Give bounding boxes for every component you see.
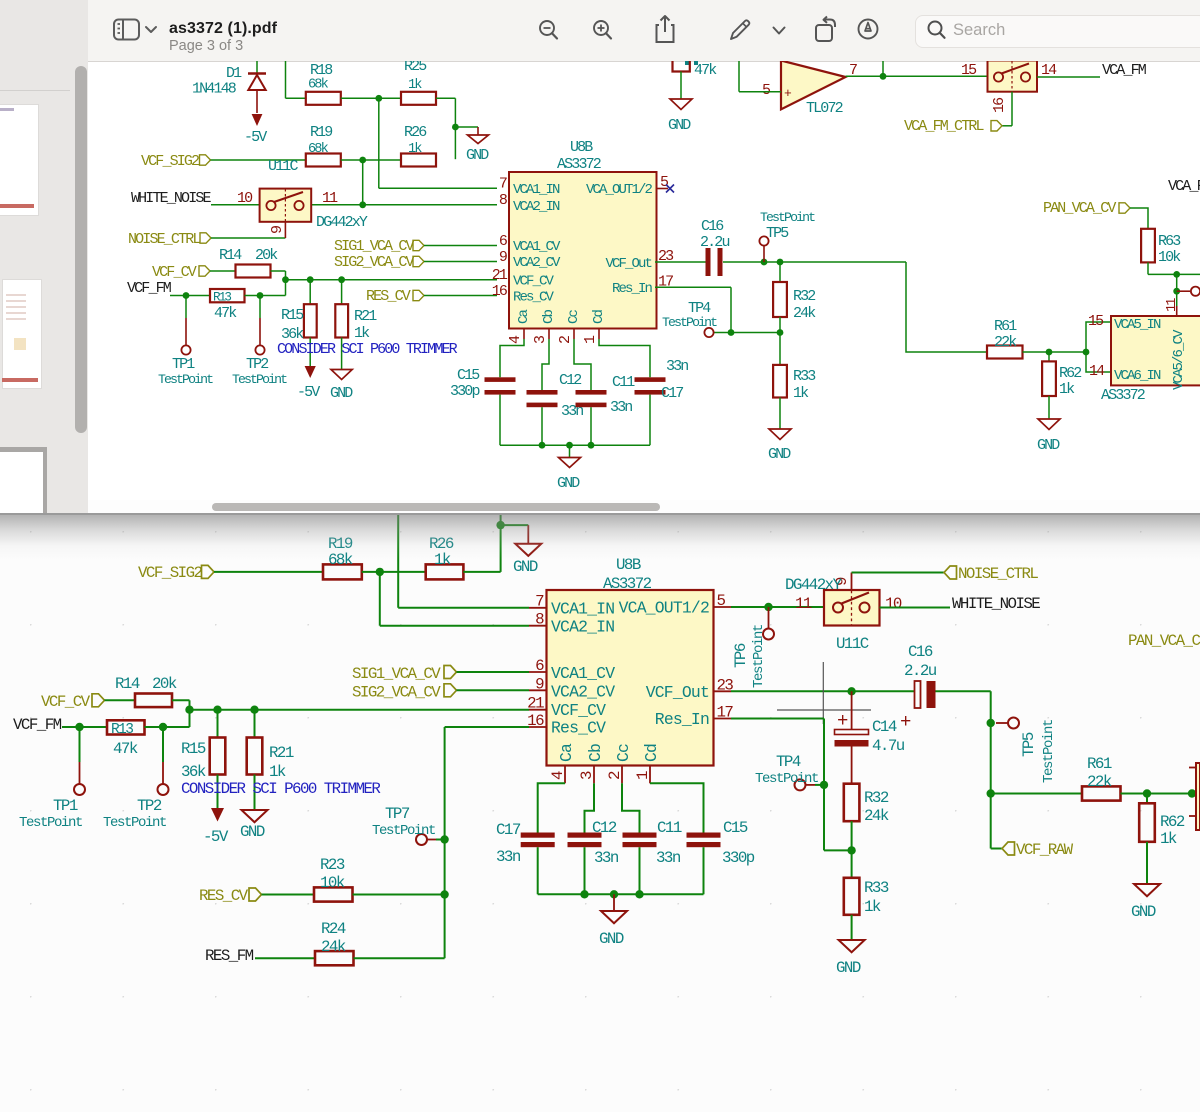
svg-text:Cd: Cd bbox=[642, 744, 661, 762]
svg-text:1k: 1k bbox=[1059, 381, 1075, 398]
wire trunk junction to pin7 bbox=[379, 98, 497, 188]
sidebar scrollbar bbox=[75, 66, 87, 433]
bottom rail wire bbox=[500, 444, 650, 446]
svg-text:11: 11 bbox=[795, 595, 812, 613]
analog switch (VCA_FM) bbox=[961, 61, 1057, 114]
ground GND (below 47k) bbox=[668, 99, 692, 134]
svg-text:33n: 33n bbox=[656, 849, 681, 867]
svg-text:4: 4 bbox=[507, 335, 524, 344]
junction (R62 tap) bbox=[1143, 789, 1151, 797]
resistor R32 bbox=[773, 262, 816, 333]
toolbar bbox=[88, 0, 1200, 62]
svg-text:21: 21 bbox=[527, 695, 544, 713]
junction (TP4) bbox=[820, 781, 828, 789]
wires to VCA5/6 pins bbox=[1086, 322, 1111, 372]
resistor R33 bbox=[844, 850, 889, 940]
svg-text:8: 8 bbox=[535, 611, 544, 629]
ground GND (below R21) bbox=[330, 370, 353, 403]
svg-text:TP4: TP4 bbox=[776, 753, 801, 771]
capacitor C17 bbox=[496, 821, 555, 894]
svg-text:Cc: Cc bbox=[614, 744, 633, 762]
junction bbox=[610, 890, 618, 898]
svg-text:VCF_FM: VCF_FM bbox=[13, 716, 62, 734]
svg-text:24k: 24k bbox=[321, 938, 346, 956]
svg-text:C12: C12 bbox=[592, 819, 617, 837]
svg-text:VCF_CV: VCF_CV bbox=[551, 701, 606, 720]
svg-text:AS3372: AS3372 bbox=[603, 575, 652, 593]
svg-text:D1: D1 bbox=[226, 65, 242, 82]
resistor R15 bbox=[181, 710, 225, 808]
svg-text:8: 8 bbox=[499, 192, 508, 209]
net label RES_FM bbox=[205, 947, 315, 965]
hier label VCF_CV bbox=[41, 693, 135, 711]
capacitor C15 bbox=[450, 367, 516, 445]
resistor R24 bbox=[315, 920, 445, 965]
svg-text:9: 9 bbox=[269, 226, 286, 234]
svg-text:PAN_VCA_CV: PAN_VCA_CV bbox=[1043, 200, 1116, 217]
svg-text:1k: 1k bbox=[408, 142, 422, 157]
ground GND (below R21) bbox=[240, 810, 268, 841]
svg-text:R63: R63 bbox=[1158, 233, 1181, 250]
svg-text:TP1: TP1 bbox=[172, 356, 195, 373]
svg-text:VCF_Out: VCF_Out bbox=[646, 683, 709, 702]
cut text dots bbox=[685, 61, 698, 65]
svg-text:3: 3 bbox=[532, 335, 549, 344]
capacitor C12 bbox=[527, 372, 584, 445]
svg-text:68k: 68k bbox=[308, 142, 329, 157]
resistor R33 bbox=[773, 333, 816, 430]
wire R26 to GND corner bbox=[463, 513, 528, 572]
svg-text:VCF_Out: VCF_Out bbox=[605, 256, 651, 272]
svg-text:33n: 33n bbox=[594, 849, 619, 867]
svg-text:R19: R19 bbox=[310, 124, 332, 141]
svg-text:VCF_FM: VCF_FM bbox=[127, 280, 172, 297]
capacitor C14 (electrolytic) bbox=[835, 691, 905, 783]
svg-text:GND: GND bbox=[1131, 903, 1156, 921]
junction bbox=[376, 568, 384, 576]
wire R25 to GND corner bbox=[436, 98, 478, 159]
svg-text:10: 10 bbox=[885, 595, 902, 613]
resistor R32 bbox=[844, 784, 889, 851]
svg-text:Cb: Cb bbox=[586, 744, 605, 762]
test point TP1 bbox=[158, 296, 213, 388]
svg-text:Ca: Ca bbox=[557, 743, 576, 762]
resistor R14 bbox=[115, 675, 177, 707]
PDF page area (white) bbox=[88, 62, 1200, 500]
svg-text:C17: C17 bbox=[496, 821, 521, 839]
svg-text:TP5: TP5 bbox=[1020, 732, 1038, 757]
svg-text:24k: 24k bbox=[793, 305, 816, 322]
svg-text:R61: R61 bbox=[994, 318, 1017, 335]
svg-text:C15: C15 bbox=[457, 367, 480, 384]
resistor 47k (cut by toolbar) bbox=[673, 61, 718, 99]
svg-text:R23: R23 bbox=[320, 856, 345, 874]
wire trunk to pin 7 bbox=[398, 513, 529, 608]
svg-text:VCA_FM_CTRL: VCA_FM_CTRL bbox=[904, 118, 985, 135]
IC (right edge, cut) bbox=[1189, 763, 1200, 830]
svg-text:47k: 47k bbox=[694, 62, 717, 79]
bottom rail wire bbox=[538, 893, 704, 895]
toolbar: title bbox=[169, 20, 277, 38]
svg-text:U8B: U8B bbox=[570, 139, 593, 156]
junction bbox=[728, 329, 735, 336]
hier label PAN_VCA_CV bbox=[1043, 200, 1148, 229]
junction (TP6) bbox=[764, 603, 772, 611]
resistor R21 bbox=[335, 280, 377, 370]
junction (R21 tap) bbox=[250, 706, 258, 714]
svg-text:Cb: Cb bbox=[541, 309, 557, 324]
svg-text:1N4148: 1N4148 bbox=[192, 81, 237, 98]
svg-text:VCF_SIG2: VCF_SIG2 bbox=[141, 153, 199, 170]
svg-text:Res_CV: Res_CV bbox=[513, 290, 555, 306]
wire R13 to node bbox=[245, 280, 286, 296]
svg-text:22k: 22k bbox=[994, 334, 1017, 351]
svg-text:TestPoint: TestPoint bbox=[662, 315, 717, 330]
svg-text:36k: 36k bbox=[181, 763, 206, 781]
svg-text:VCF_CV: VCF_CV bbox=[152, 264, 197, 281]
svg-text:330p: 330p bbox=[450, 383, 479, 400]
svg-text:TL072: TL072 bbox=[806, 100, 843, 117]
power -5V (below R15) bbox=[297, 366, 320, 401]
window top shadow bbox=[0, 513, 1200, 560]
junction bbox=[452, 124, 459, 131]
wire R19-R26 bbox=[341, 159, 401, 161]
wire C16 node to R61 bbox=[906, 262, 987, 352]
toolbar: zoom in icon bbox=[590, 18, 616, 44]
wire trunk to R18 bbox=[286, 61, 306, 98]
wire R18-R25 bbox=[341, 97, 401, 99]
svg-text:R33: R33 bbox=[864, 879, 889, 897]
hier label SIG1_VCA_CV bbox=[334, 238, 497, 255]
resistor R25 bbox=[401, 58, 436, 105]
junction bbox=[1173, 271, 1180, 278]
svg-text:TestPoint: TestPoint bbox=[755, 771, 818, 787]
wire Cd to C15 bbox=[650, 783, 704, 832]
crosshair cursor bbox=[777, 662, 871, 724]
power -5V (below D1) bbox=[244, 114, 267, 146]
svg-text:R62: R62 bbox=[1059, 365, 1081, 382]
svg-text:24k: 24k bbox=[864, 807, 889, 825]
toolbar: search field bbox=[915, 15, 1200, 48]
ground GND (cap rail) bbox=[557, 445, 581, 492]
svg-text:GND: GND bbox=[836, 959, 861, 977]
junction bbox=[539, 442, 546, 449]
svg-text:1k: 1k bbox=[408, 78, 422, 93]
svg-text:47k: 47k bbox=[214, 305, 237, 322]
svg-text:GND: GND bbox=[599, 930, 624, 948]
no-connect X on pin 5 bbox=[657, 185, 675, 193]
toolbar: share icon bbox=[653, 13, 679, 45]
test point TP4 bbox=[662, 300, 717, 337]
ground GND (below R33) bbox=[768, 429, 791, 463]
pin stubs Ca-Cd bbox=[524, 329, 599, 340]
junction (TP2 tap) bbox=[159, 723, 167, 731]
svg-text:VCA2_IN: VCA2_IN bbox=[551, 618, 614, 637]
svg-text:VCF_RAW: VCF_RAW bbox=[1016, 841, 1074, 859]
svg-text:GND: GND bbox=[240, 823, 265, 841]
svg-text:C14: C14 bbox=[872, 718, 897, 736]
resistor R63 bbox=[1141, 229, 1181, 275]
svg-text:VCA_F: VCA_F bbox=[1168, 178, 1200, 195]
junction bbox=[777, 329, 784, 336]
junction (TP2 tap) bbox=[257, 292, 264, 299]
svg-text:R14: R14 bbox=[115, 675, 140, 693]
svg-text:-5V: -5V bbox=[203, 828, 229, 846]
net label VCF_FM bbox=[127, 280, 210, 297]
svg-text:RES_FM: RES_FM bbox=[205, 947, 254, 965]
svg-text:WHITE_NOISE: WHITE_NOISE bbox=[131, 190, 212, 207]
test point (right edge) bbox=[1177, 287, 1200, 296]
svg-text:20k: 20k bbox=[152, 675, 177, 693]
svg-text:5: 5 bbox=[762, 82, 771, 99]
test point TP6 bbox=[732, 607, 774, 688]
svg-text:GND: GND bbox=[557, 475, 580, 492]
wire pin23 to C16 bbox=[731, 690, 915, 692]
wire Cb to C12 bbox=[542, 339, 549, 390]
svg-text:Ca: Ca bbox=[516, 309, 532, 324]
sidebar divider bbox=[0, 90, 70, 91]
svg-text:VCA_OUT1/2: VCA_OUT1/2 bbox=[586, 182, 653, 198]
junction (R15 tap) bbox=[307, 276, 314, 283]
net label WHITE_NOISE bbox=[880, 595, 1041, 613]
capacitor C12 bbox=[568, 819, 619, 894]
svg-text:+: + bbox=[784, 86, 792, 101]
resistor R19 bbox=[323, 535, 362, 579]
svg-text:TP1: TP1 bbox=[53, 797, 78, 815]
svg-text:330p: 330p bbox=[722, 849, 755, 867]
svg-text:WHITE_NOISE: WHITE_NOISE bbox=[952, 595, 1040, 613]
junction bbox=[588, 442, 595, 449]
resistor R13 bbox=[210, 289, 245, 322]
svg-text:11: 11 bbox=[1165, 298, 1180, 312]
svg-text:R33: R33 bbox=[793, 368, 816, 385]
svg-text:1k: 1k bbox=[793, 385, 809, 402]
svg-text:VCA2_CV: VCA2_CV bbox=[551, 683, 615, 702]
wire C16 to R61 column bbox=[991, 691, 1082, 793]
test point TP2 bbox=[103, 727, 169, 831]
junction (R21 tap) bbox=[338, 276, 345, 283]
wire R19 to R26 bbox=[362, 571, 426, 573]
svg-text:R18: R18 bbox=[310, 62, 333, 79]
capacitor C17 bbox=[635, 358, 689, 445]
junction (VCF_RAW) bbox=[987, 789, 995, 797]
svg-text:+: + bbox=[900, 711, 911, 733]
resistor R61 bbox=[987, 318, 1086, 359]
svg-text:VCA5/6_CV: VCA5/6_CV bbox=[1171, 329, 1187, 390]
wire Res_In pin17 to R32 node bbox=[731, 719, 852, 851]
svg-text:1: 1 bbox=[582, 335, 599, 344]
svg-text:6: 6 bbox=[499, 233, 508, 250]
toolbar: highlight icon bbox=[856, 17, 880, 41]
junction bbox=[496, 521, 504, 529]
wire Cb to C12 bbox=[585, 783, 595, 832]
svg-text:GND: GND bbox=[513, 558, 538, 576]
svg-text:VCA5_IN: VCA5_IN bbox=[1114, 317, 1161, 333]
junction bbox=[359, 157, 366, 164]
svg-text:9: 9 bbox=[535, 675, 544, 693]
wire Res_In to TP4 node bbox=[655, 287, 780, 332]
svg-text:R24: R24 bbox=[321, 920, 346, 938]
svg-text:Cc: Cc bbox=[566, 309, 582, 324]
svg-text:22k: 22k bbox=[1087, 773, 1112, 791]
svg-text:16: 16 bbox=[527, 712, 544, 730]
svg-text:TestPoint: TestPoint bbox=[751, 625, 767, 688]
svg-text:U11C: U11C bbox=[836, 635, 869, 653]
IC U8B AS3372 bbox=[492, 139, 674, 344]
svg-text:TP7: TP7 bbox=[385, 805, 410, 823]
svg-text:TP6: TP6 bbox=[732, 643, 750, 668]
svg-text:VCF_SIG2: VCF_SIG2 bbox=[138, 564, 203, 582]
toolbar: sidebar toggle icon bbox=[112, 18, 158, 42]
junction bbox=[580, 890, 588, 898]
capacitor C11 bbox=[576, 374, 636, 445]
svg-text:CONSIDER SCI P600 TRIMMER: CONSIDER SCI P600 TRIMMER bbox=[181, 780, 381, 798]
hier label VCF_SIG2 bbox=[138, 564, 323, 582]
wire Cc to C11 bbox=[622, 783, 640, 832]
junction (pins 15/14 tap) bbox=[1083, 349, 1090, 356]
wire R14 to node bbox=[271, 271, 498, 280]
svg-text:Cd: Cd bbox=[591, 309, 607, 324]
wire Cd to C17 bbox=[599, 339, 650, 377]
hier label RES_CV bbox=[199, 887, 314, 905]
wire R14 to node bbox=[172, 700, 529, 709]
ground GND (cap rail) bbox=[599, 894, 627, 948]
wire Res_CV pin16 to trunk bbox=[445, 727, 529, 958]
hier label VCF_SIG2 bbox=[141, 153, 306, 170]
svg-text:VCF_CV: VCF_CV bbox=[41, 693, 91, 711]
svg-text:16: 16 bbox=[492, 283, 508, 300]
svg-text:VCA1_CV: VCA1_CV bbox=[551, 664, 615, 683]
svg-text:-5V: -5V bbox=[244, 129, 267, 146]
svg-text:1k: 1k bbox=[354, 325, 370, 342]
svg-text:R15: R15 bbox=[281, 307, 304, 324]
analog switch U11C bbox=[785, 576, 902, 653]
pin stubs Ca-Cd bbox=[565, 766, 650, 784]
junction (TP1 tap) bbox=[183, 292, 190, 299]
power -5V (below R15) bbox=[203, 808, 229, 846]
svg-text:SIG2_VCA_CV: SIG2_VCA_CV bbox=[334, 254, 415, 271]
svg-text:C15: C15 bbox=[723, 819, 748, 837]
junction (RES_CV) bbox=[440, 890, 448, 898]
svg-text:C12: C12 bbox=[559, 372, 581, 389]
toolbar: zoom out icon bbox=[536, 18, 562, 44]
toolbar: markup pencil icon bbox=[726, 16, 754, 44]
diode D1 bbox=[192, 61, 266, 113]
svg-text:Res_CV: Res_CV bbox=[551, 719, 606, 738]
junction (op-amp output) bbox=[880, 73, 887, 80]
svg-text:VCA1_CV: VCA1_CV bbox=[513, 239, 561, 255]
svg-text:-5V: -5V bbox=[297, 384, 320, 401]
svg-text:TestPoint: TestPoint bbox=[19, 815, 82, 831]
svg-text:33n: 33n bbox=[666, 358, 688, 375]
wire Ca to C15 bbox=[500, 339, 524, 377]
junction (right) bbox=[1188, 789, 1196, 797]
wire R63 to pin 11 node bbox=[1148, 274, 1200, 316]
capacitor C11 bbox=[623, 819, 682, 894]
svg-text:6: 6 bbox=[535, 657, 544, 675]
svg-text:10k: 10k bbox=[320, 874, 345, 892]
svg-text:9: 9 bbox=[499, 249, 507, 266]
svg-text:7: 7 bbox=[535, 593, 544, 611]
svg-text:+: + bbox=[837, 710, 848, 732]
junction (TP1 tap) bbox=[75, 723, 83, 731]
svg-text:C16: C16 bbox=[908, 643, 933, 661]
svg-text:TP5: TP5 bbox=[766, 225, 789, 242]
hier label SIG2_VCA_CV bbox=[352, 683, 529, 701]
svg-text:10k: 10k bbox=[1158, 249, 1181, 266]
junction bbox=[185, 706, 193, 714]
resistor R14 bbox=[219, 247, 278, 278]
junction (C14 tap) bbox=[847, 687, 855, 695]
svg-text:TestPoint: TestPoint bbox=[1041, 720, 1057, 783]
PDF horizontal scrollbar strip bbox=[88, 500, 1200, 513]
svg-text:5: 5 bbox=[717, 592, 726, 610]
test point TP7 bbox=[372, 805, 445, 845]
junction bbox=[635, 890, 643, 898]
svg-text:SIG1_VCA_CV: SIG1_VCA_CV bbox=[334, 238, 415, 255]
resistor R23 bbox=[314, 856, 445, 902]
IC U8B AS3372 bbox=[527, 556, 733, 780]
svg-text:2.2u: 2.2u bbox=[700, 234, 729, 251]
svg-text:33n: 33n bbox=[610, 399, 632, 416]
svg-text:20k: 20k bbox=[255, 247, 278, 264]
ground GND (top right) bbox=[513, 525, 541, 576]
capacitor C16 bbox=[655, 218, 906, 276]
svg-text:1k: 1k bbox=[864, 898, 881, 916]
svg-text:21: 21 bbox=[492, 267, 508, 284]
svg-text:10: 10 bbox=[237, 190, 253, 207]
svg-text:NOISE_CTRL: NOISE_CTRL bbox=[128, 231, 201, 248]
junction bbox=[282, 276, 289, 283]
hier label SIG2_VCA_CV bbox=[334, 254, 497, 271]
svg-text:TestPoint: TestPoint bbox=[158, 372, 213, 387]
junction (R15 tap) bbox=[213, 706, 221, 714]
resistor R19 bbox=[306, 124, 341, 167]
svg-text:R32: R32 bbox=[793, 288, 815, 305]
junction bbox=[1173, 288, 1180, 295]
svg-text:VCF_CV: VCF_CV bbox=[513, 274, 555, 290]
svg-text:15: 15 bbox=[1088, 313, 1104, 330]
junction (R33 top) bbox=[847, 846, 855, 854]
svg-text:68k: 68k bbox=[308, 78, 329, 93]
svg-text:VCA6_IN: VCA6_IN bbox=[1114, 368, 1161, 384]
hier label VCF_CV bbox=[152, 264, 236, 281]
resistor R13 bbox=[107, 720, 145, 758]
hier label VCF_RAW bbox=[991, 794, 1074, 860]
svg-text:TestPoint: TestPoint bbox=[760, 210, 815, 225]
svg-text:C11: C11 bbox=[657, 819, 682, 837]
svg-text:Res_In: Res_In bbox=[612, 281, 653, 297]
svg-text:C11: C11 bbox=[612, 374, 635, 391]
svg-text:R21: R21 bbox=[269, 744, 294, 762]
toolbar: small chevron bbox=[771, 25, 787, 37]
svg-text:R13: R13 bbox=[213, 291, 231, 305]
svg-text:2.2u: 2.2u bbox=[904, 662, 937, 680]
svg-text:TestPoint: TestPoint bbox=[372, 823, 435, 839]
svg-text:RES_CV: RES_CV bbox=[199, 887, 249, 905]
junction bbox=[566, 442, 573, 449]
svg-text:U11C: U11C bbox=[268, 158, 298, 175]
svg-text:VCA2_CV: VCA2_CV bbox=[513, 255, 561, 271]
net label WHITE_NOISE bbox=[131, 190, 260, 207]
junction (TP7) bbox=[440, 835, 448, 843]
test point TP1 bbox=[19, 727, 85, 831]
svg-text:R25: R25 bbox=[404, 61, 427, 75]
svg-text:R14: R14 bbox=[219, 247, 242, 264]
svg-text:GND: GND bbox=[466, 147, 489, 164]
svg-text:23: 23 bbox=[717, 676, 734, 694]
svg-text:R61: R61 bbox=[1087, 755, 1112, 773]
